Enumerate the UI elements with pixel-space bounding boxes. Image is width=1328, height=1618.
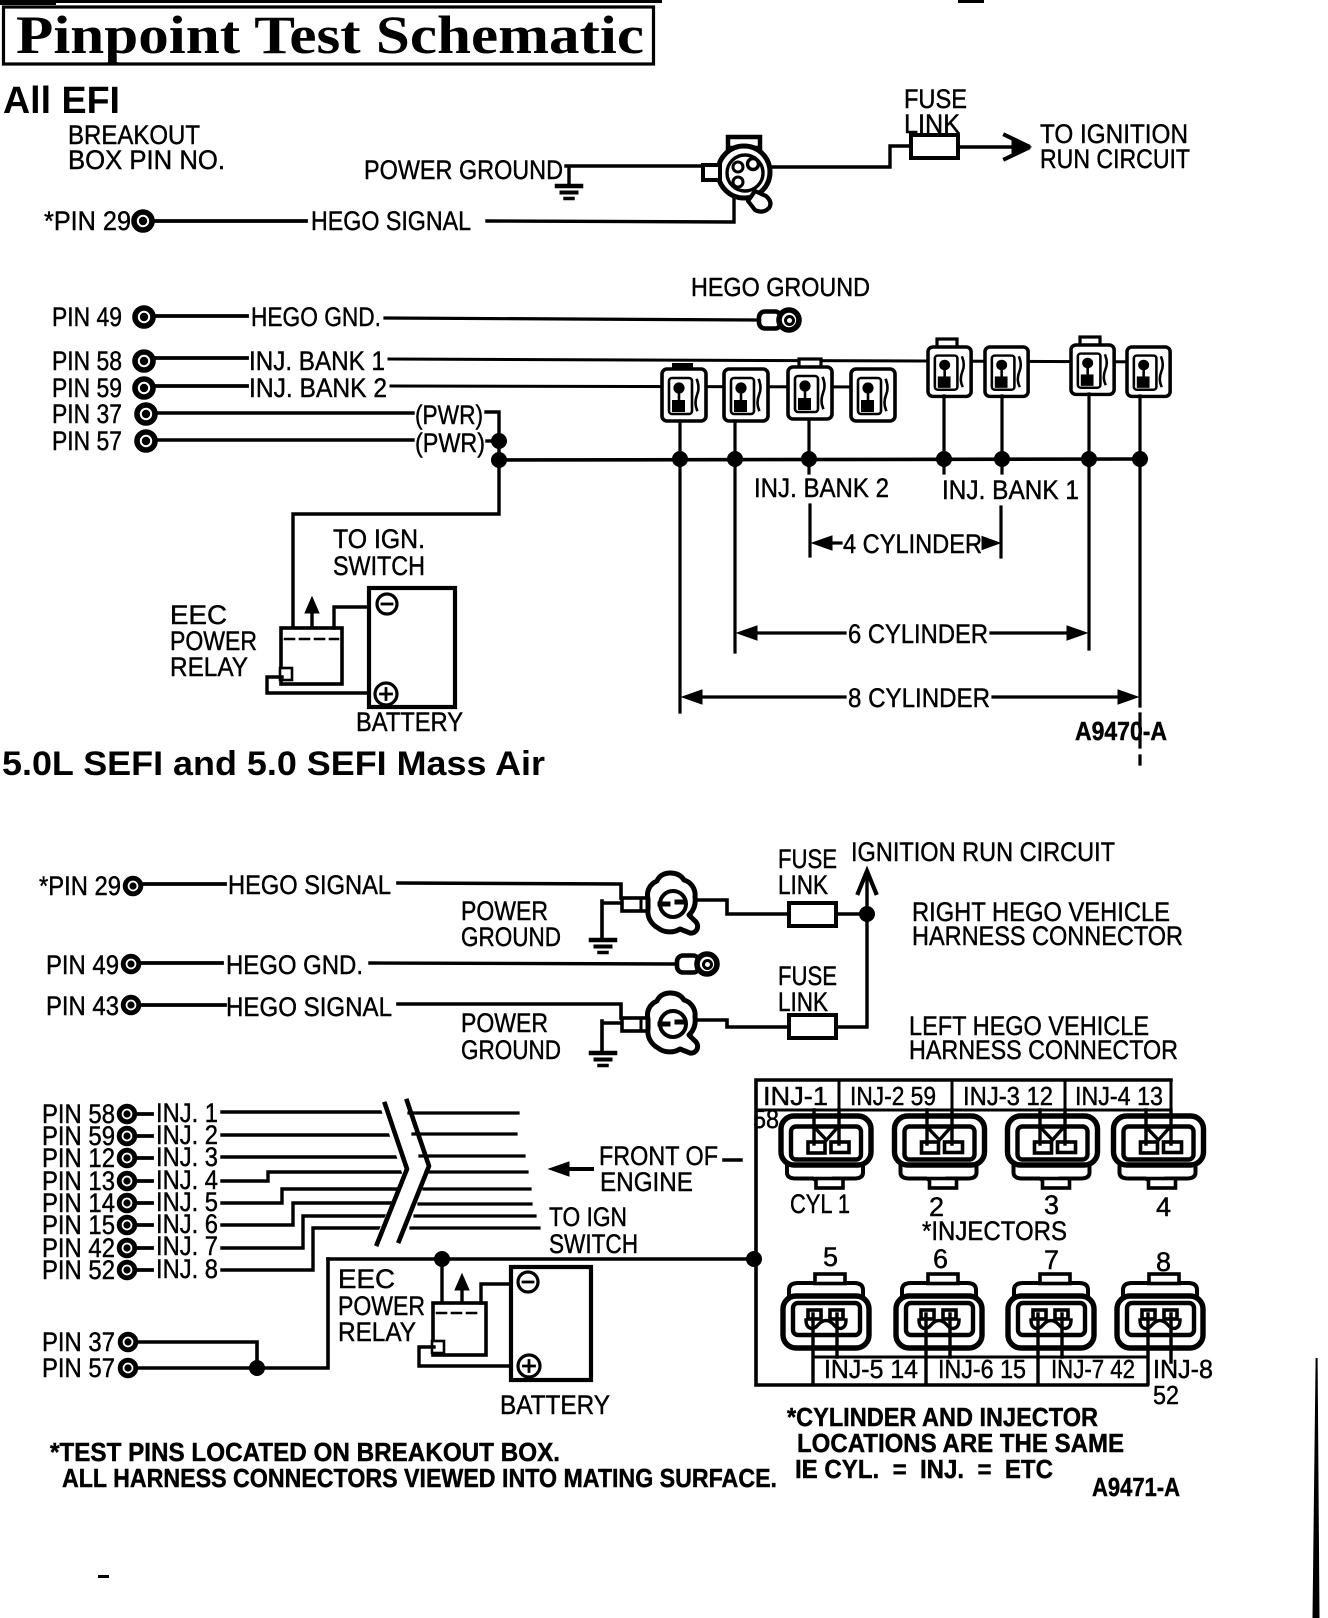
wire drop inj2 to bus — [733, 421, 736, 459]
page-top scan artifact line — [0, 0, 662, 3]
8 cylinder dimension — [682, 683, 1138, 713]
svg-text:ENGINE: ENGINE — [600, 1167, 693, 1197]
relay arrow to ign switch — [310, 602, 313, 627]
svg-text:HARNESS CONNECTOR: HARNESS CONNECTOR — [912, 921, 1183, 951]
svg-text:HEGO SIGNAL: HEGO SIGNAL — [311, 206, 471, 236]
svg-text:BOX PIN NO.: BOX PIN NO. — [68, 145, 225, 175]
svg-text:GROUND: GROUND — [461, 922, 561, 952]
wire power ground to hego connector — [566, 166, 703, 184]
svg-text:EEC: EEC — [338, 1264, 395, 1294]
injector connector INJ1 (bank2 group) — [662, 363, 706, 421]
wires cell2 to cyl2 pins — [927, 1110, 952, 1144]
page edge artifact right — [1313, 1358, 1320, 1618]
right hego vehicle harness connector — [647, 873, 697, 933]
injector connector INJ4 — [851, 369, 895, 421]
wire 4cyl left tick — [808, 505, 811, 556]
wire drop inj1 to bus — [678, 421, 681, 459]
wire pwr down to bus — [497, 441, 500, 460]
wire 6cyl left leg — [733, 459, 736, 652]
svg-text:PIN 49: PIN 49 — [52, 302, 122, 332]
wire relay to battery neg — [334, 607, 369, 628]
wire inj4 right of break — [426, 1170, 527, 1173]
injector connector cyl 3 — [1008, 1116, 1098, 1188]
svg-text:RUN CIRCUIT: RUN CIRCUIT — [1040, 144, 1190, 174]
wires inj6 pins down — [926, 1314, 950, 1384]
fuse link (top) — [911, 135, 958, 158]
injector connector 6 — [896, 1274, 982, 1348]
svg-text:LINK: LINK — [778, 870, 828, 900]
wire power ground leg (left hego) — [602, 1021, 620, 1052]
wire hego gnd to ring terminal — [370, 963, 676, 964]
wire hego to fuse link — [770, 146, 911, 167]
svg-text:INJ. BANK 1: INJ. BANK 1 — [942, 475, 1079, 505]
svg-text:GROUND: GROUND — [461, 1035, 561, 1065]
svg-text:Pinpoint Test Schematic: Pinpoint Test Schematic — [16, 5, 644, 65]
ground — [557, 186, 581, 199]
svg-text:RELAY: RELAY — [338, 1317, 416, 1347]
injector connector INJ3 — [788, 359, 832, 419]
wire drop inj6 to bus — [1000, 396, 1003, 459]
label row bottom border — [756, 1109, 1171, 1112]
svg-text:TO IGN.: TO IGN. — [333, 524, 425, 554]
wire inj6 stepped — [222, 1203, 398, 1225]
wire power ground leg (right hego) — [602, 901, 620, 939]
wire hego signal to connector — [487, 196, 734, 222]
wire right hego to fuse link — [697, 900, 789, 914]
injector connector INJ2 — [724, 369, 768, 421]
wire hego signal right to connector — [398, 883, 621, 898]
svg-text:INJ. BANK 2: INJ. BANK 2 — [754, 473, 889, 503]
wire pin29 hego signal — [154, 219, 306, 223]
wire pwr bus down to eec relay — [293, 460, 499, 628]
svg-text:LINK: LINK — [904, 109, 960, 139]
wire relay to battery pos (bottom) — [419, 1347, 519, 1366]
svg-text:(PWR): (PWR) — [415, 400, 483, 430]
wire inj8 right of break — [411, 1226, 539, 1229]
svg-text:PIN 52: PIN 52 — [42, 1255, 115, 1285]
wire inj3 right of break — [420, 1154, 524, 1157]
injector connector cyl 4 — [1114, 1116, 1204, 1188]
svg-text:HEGO GND.: HEGO GND. — [251, 302, 381, 332]
ground (right hego) — [591, 940, 615, 953]
injector connector cyl 1 — [781, 1116, 871, 1188]
svg-text:POWER GROUND: POWER GROUND — [364, 155, 563, 185]
wire fuse to ignition arrow — [958, 145, 1014, 148]
wires cell1 to cyl1 pins — [814, 1110, 839, 1144]
wire 8cyl left leg — [678, 459, 681, 712]
svg-text:POWER: POWER — [461, 1008, 548, 1038]
svg-text:HEGO SIGNAL: HEGO SIGNAL — [228, 870, 391, 900]
svg-text:HARNESS CONNECTOR: HARNESS CONNECTOR — [909, 1035, 1178, 1065]
hego sensor connector (top) — [703, 137, 770, 212]
svg-text:RELAY: RELAY — [170, 652, 248, 682]
svg-text:LINK: LINK — [778, 987, 828, 1017]
wire stub inj5 — [942, 459, 945, 473]
wires inj5 pins down — [813, 1314, 837, 1384]
battery positive terminal (bottom) — [518, 1355, 540, 1377]
wire inj bank 1 — [389, 359, 1167, 362]
wire inj bank 2 — [391, 386, 893, 387]
injector connector cyl 2 — [895, 1116, 985, 1188]
battery positive terminal — [375, 683, 397, 705]
svg-text:INJ-7 42: INJ-7 42 — [1051, 1354, 1135, 1384]
svg-text:IGNITION RUN CIRCUIT: IGNITION RUN CIRCUIT — [851, 837, 1115, 867]
svg-text:INJ. BANK 2: INJ. BANK 2 — [249, 373, 387, 403]
wire stub inj3 — [807, 459, 810, 473]
svg-text:INJ-2 59: INJ-2 59 — [850, 1081, 936, 1111]
front of engine arrow — [563, 1167, 592, 1171]
svg-text:PIN 57: PIN 57 — [52, 426, 122, 456]
injector connector 7 — [1008, 1274, 1094, 1348]
fuse link (left) — [789, 1015, 836, 1038]
fuse link (right) — [789, 903, 836, 926]
pin bar into left hego connector — [622, 1018, 650, 1031]
injector box outline — [756, 1080, 1171, 1385]
svg-text:PIN 58: PIN 58 — [52, 346, 122, 376]
svg-text:ALL HARNESS CONNECTORS VIEWED: ALL HARNESS CONNECTORS VIEWED INTO MATIN… — [62, 1463, 777, 1493]
svg-text:INJ. 8: INJ. 8 — [156, 1254, 218, 1284]
svg-text:6 CYLINDER: 6 CYLINDER — [848, 619, 988, 649]
wire inj5 stepped — [222, 1189, 403, 1203]
wire left hego to fuse link — [697, 1020, 789, 1027]
wire stub inj6 — [1000, 459, 1003, 473]
svg-text:TO IGN: TO IGN — [549, 1202, 627, 1232]
svg-text:PIN 57: PIN 57 — [42, 1353, 115, 1383]
wire drop inj7 to bus — [1087, 394, 1090, 459]
svg-text:HEGO GND.: HEGO GND. — [226, 950, 363, 980]
label cell right edge — [1170, 1080, 1173, 1110]
battery box (bottom) — [511, 1267, 591, 1380]
svg-text:HEGO GROUND: HEGO GROUND — [691, 272, 870, 302]
relay arrow to ign switch (bottom) — [460, 1281, 463, 1302]
svg-text:*PIN 29: *PIN 29 — [44, 206, 131, 236]
wire 6cyl right leg — [1087, 459, 1090, 649]
svg-text:BATTERY: BATTERY — [356, 707, 463, 737]
svg-text:A9470-A: A9470-A — [1075, 716, 1167, 746]
wire inj7 stepped — [222, 1216, 395, 1248]
wire 4cyl right tick — [999, 507, 1002, 557]
wire hego signal to left connector — [398, 1004, 621, 1018]
wire drop inj3 to bus — [807, 420, 810, 459]
svg-text:IE CYL. = INJ. = ETC: IE CYL. = INJ. = ETC — [795, 1454, 1053, 1484]
ring terminal hego gnd (bottom) — [677, 954, 717, 974]
eec power relay box (top) — [280, 628, 342, 684]
battery negative terminal (bottom) — [518, 1272, 538, 1292]
wire drop inj8 to bus — [1138, 396, 1141, 459]
svg-text:CYL 1: CYL 1 — [790, 1189, 850, 1219]
small artifact dash bottom left — [98, 1575, 109, 1578]
wire inj6 right of break — [419, 1202, 531, 1205]
wire pin57 to ign riser — [139, 1259, 328, 1368]
svg-text:PIN 49: PIN 49 — [46, 950, 119, 980]
title box — [4, 7, 654, 64]
wire pin37 to junction — [139, 1342, 257, 1368]
wires cell3 to cyl3 pins — [1040, 1110, 1065, 1144]
svg-text:All EFI: All EFI — [3, 80, 120, 122]
injector connector INJ6 — [985, 347, 1028, 396]
svg-text:INJ. BANK 1: INJ. BANK 1 — [249, 346, 385, 376]
wire inj7 right of break — [415, 1214, 535, 1217]
wire pin49 hego gnd — [155, 314, 247, 318]
wire relay to battery pos — [267, 677, 370, 693]
svg-text:7: 7 — [1044, 1245, 1059, 1275]
wire 8cyl right leg — [1138, 459, 1141, 706]
svg-text:58: 58 — [753, 1104, 779, 1134]
svg-text:INJ-4 13: INJ-4 13 — [1075, 1081, 1163, 1111]
svg-text:6: 6 — [933, 1244, 948, 1274]
svg-text:4 CYLINDER: 4 CYLINDER — [843, 529, 982, 559]
wire junction down to left fuse — [836, 914, 867, 1027]
battery negative terminal — [377, 594, 397, 614]
injector connector INJ7 — [1071, 337, 1114, 394]
svg-text:5.0L SEFI and 5.0 SEFI Mass Ai: 5.0L SEFI and 5.0 SEFI Mass Air — [2, 745, 545, 783]
wire inj1 right of break — [409, 1111, 518, 1114]
wire inj2 — [222, 1133, 392, 1136]
wires inj8 pins down — [1148, 1314, 1171, 1384]
svg-text:SWITCH: SWITCH — [549, 1229, 638, 1259]
to ign switch bus wire — [328, 1257, 754, 1261]
harness break erase region — [371, 1100, 436, 1248]
svg-text:5: 5 — [823, 1242, 838, 1272]
injector connector 5 — [783, 1274, 869, 1348]
svg-text:BATTERY: BATTERY — [500, 1390, 610, 1420]
battery box (top) — [369, 588, 455, 707]
injector connector INJ5 (bank1 group) — [928, 339, 971, 396]
label cell divider 1 — [838, 1080, 841, 1110]
wires cell4 to cyl4 pins — [1146, 1110, 1171, 1144]
wires inj7 pins down — [1038, 1314, 1062, 1384]
wire inj8 stepped — [222, 1228, 391, 1270]
svg-text:INJ-3 12: INJ-3 12 — [963, 1081, 1053, 1111]
ring terminal hego ground — [759, 310, 799, 330]
wire inj5 right of break — [424, 1187, 530, 1190]
label cell divider 3 — [1064, 1080, 1067, 1110]
pin bar into right hego connector — [622, 898, 650, 911]
wire drop inj5 to bus — [942, 396, 945, 459]
svg-text:INJ-5 14: INJ-5 14 — [824, 1354, 918, 1384]
junction dots on bus — [672, 451, 688, 467]
wire junction down to relay — [440, 1259, 443, 1303]
wire pwr37 elbow — [486, 412, 499, 441]
wire relay to battery neg (bottom) — [481, 1284, 512, 1303]
wire 8cyl right leg dashed tail — [1138, 714, 1141, 764]
wire inj4 stepped — [222, 1172, 404, 1181]
injector connector 8 — [1117, 1274, 1203, 1348]
svg-text:*PIN 29: *PIN 29 — [39, 871, 121, 901]
svg-text:HEGO SIGNAL: HEGO SIGNAL — [226, 992, 392, 1022]
svg-text:SWITCH: SWITCH — [333, 551, 425, 581]
svg-text:8 CYLINDER: 8 CYLINDER — [848, 683, 990, 713]
wire inj2 right of break — [413, 1132, 516, 1135]
bottom label row top border — [813, 1356, 1148, 1359]
injector connector INJ8 — [1127, 347, 1170, 396]
svg-text:4: 4 — [1156, 1192, 1171, 1222]
wire inj3 — [222, 1155, 399, 1158]
6 cylinder dimension — [737, 619, 1087, 649]
svg-text:52: 52 — [1153, 1380, 1179, 1410]
svg-text:PIN 43: PIN 43 — [46, 991, 119, 1021]
svg-text:A9471-A: A9471-A — [1092, 1472, 1180, 1502]
svg-text:PIN 37: PIN 37 — [52, 399, 122, 429]
svg-text:(PWR): (PWR) — [415, 428, 485, 458]
svg-text:*INJECTORS: *INJECTORS — [922, 1216, 1067, 1246]
ground (left hego) — [591, 1053, 615, 1066]
power bus wire — [499, 459, 1140, 460]
wire inj1 — [222, 1110, 388, 1113]
eec power relay box (bottom) — [432, 1303, 486, 1355]
wire fuse to junction — [836, 912, 867, 916]
harness break slash left — [377, 1104, 407, 1244]
ignition run circuit arrow — [865, 876, 868, 914]
left hego vehicle harness connector — [647, 993, 697, 1053]
harness break slash right — [399, 1101, 429, 1241]
4 cylinder dimension — [812, 529, 1000, 559]
svg-text:INJ-6 15: INJ-6 15 — [938, 1354, 1026, 1384]
label cell divider 2 — [951, 1080, 954, 1110]
